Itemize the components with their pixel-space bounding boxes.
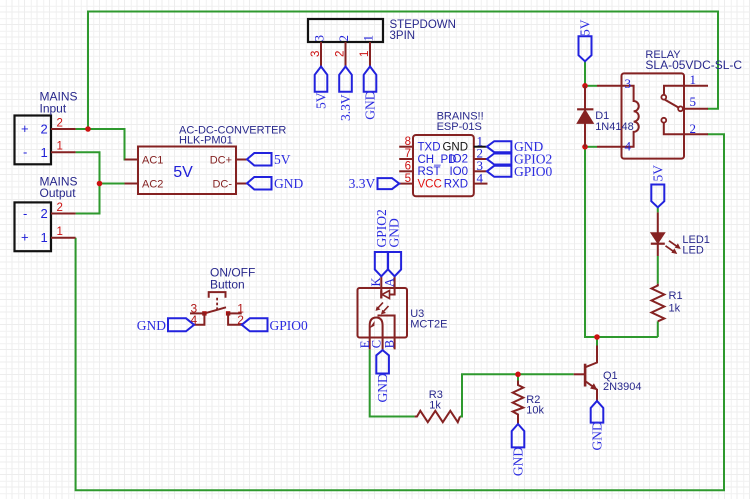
svg-text:AC2: AC2 [142,179,163,191]
svg-text:VCC: VCC [418,178,442,190]
svg-text:3PIN: 3PIN [390,30,416,42]
svg-text:2: 2 [41,122,48,137]
svg-text:2N3904: 2N3904 [603,381,642,393]
svg-text:8: 8 [405,136,411,148]
diode D1 1N4148 [577,86,634,147]
net flag GPIO2 at ESP pin2 [487,154,512,165]
svg-text:3: 3 [310,51,322,57]
net flag GND at button pin4 [168,318,194,331]
svg-text:+: + [21,121,29,136]
svg-text:MCT2E: MCT2E [410,319,447,331]
wire mains-in pin1 to AC2 [76,152,138,183]
wire mains-out pin2 to AC2 node [76,184,100,214]
svg-text:GPIO0: GPIO0 [270,318,309,333]
pin 3 button [190,312,204,314]
svg-text:C: C [369,340,383,348]
svg-text:GND: GND [274,176,303,191]
opto C pin stub [382,338,384,351]
net flag 5V above LED1 [651,185,664,208]
net flag 3.3V at ESP pin5 [378,178,400,189]
svg-text:5V: 5V [578,19,593,36]
pin 2 button [228,313,242,324]
relay contact pin 5 [678,106,683,111]
svg-text:4: 4 [477,170,484,185]
net flag GND at DC- [247,177,272,190]
junction node D1 top [582,83,588,89]
svg-text:5V: 5V [274,152,291,167]
net flag 5V at DC+ [247,153,272,166]
pin 1 button [228,312,242,314]
svg-text:2: 2 [57,202,63,214]
svg-text:-: - [23,206,27,221]
wire 5V flag to LED1 anode [657,207,659,212]
pin AC2 [125,183,139,185]
connector STEPDOWN 3PIN [308,19,456,42]
pin 3 STEPDOWN [320,42,322,67]
svg-text:6: 6 [405,161,411,173]
pin DC- [236,183,248,185]
pin 7 CH_PD [399,158,413,160]
svg-text:2: 2 [57,117,63,129]
module U2 ESP-01S [413,111,484,197]
pin 1 STEPDOWN [369,42,371,67]
net flag GPIO2 above opto K [375,252,388,276]
wire base net riser to Q1 base [460,374,574,416]
svg-text:IO0: IO0 [449,166,468,178]
svg-text:4: 4 [625,138,632,153]
net flag GPIO0 at ESP pin3 [487,166,512,177]
svg-text:1: 1 [41,145,48,160]
svg-text:ESP-01S: ESP-01S [437,121,482,133]
junction node dot1 mains input [85,126,91,132]
svg-text:A: A [382,278,396,287]
svg-text:2: 2 [690,121,697,136]
opto phototransistor [370,318,383,350]
svg-text:AC1: AC1 [142,155,163,167]
wire mains-out pin1 bottom loop to relay pin2 [76,134,724,490]
svg-text:1k: 1k [429,400,441,412]
resistor R1 1k [652,284,683,322]
svg-text:2: 2 [336,35,351,42]
svg-text:GND: GND [511,447,526,476]
svg-text:1: 1 [359,51,371,57]
svg-text:Input: Input [40,102,67,116]
svg-text:GND: GND [137,318,166,333]
svg-text:3.3V: 3.3V [338,94,353,121]
junction node D1 bottom [582,144,588,150]
wire node to relay pin4 [585,146,597,148]
LED LED1 [651,212,710,256]
svg-text:1: 1 [57,141,63,153]
relay contact pin 1 [664,86,708,95]
net flag GND above opto A [388,252,401,276]
svg-text:5V: 5V [314,92,329,109]
wire LED1 cathode to R1 top [657,256,659,284]
net flag GND below Q1 [591,401,604,423]
wire node to relay pin3 [585,85,597,87]
svg-text:3: 3 [311,35,326,42]
transistor Q1 2N3904 [574,346,642,401]
svg-text:1: 1 [41,230,48,245]
pin AC1 [125,159,139,161]
svg-text:DC-: DC- [212,179,232,191]
svg-text:Button: Button [210,278,245,292]
svg-text:10k: 10k [526,404,544,416]
svg-text:GND: GND [590,421,605,450]
svg-text:2: 2 [335,51,347,57]
connector MAINS Output [15,175,78,252]
svg-text:+: + [21,229,29,244]
svg-text:7: 7 [405,148,411,160]
AC-DC converter HLK-PM01 [138,124,286,194]
svg-text:GND: GND [442,141,468,153]
pin DC+ [236,159,248,161]
pin 5 VCC [399,183,413,185]
pin 2 STEPDOWN [345,42,347,67]
net flag GND below STEPDOWN pin1 [364,67,377,92]
svg-text:1: 1 [57,226,63,238]
svg-text:SLA-05VDC-SL-C: SLA-05VDC-SL-C [645,58,742,72]
svg-text:3: 3 [625,76,632,91]
opto internal LED [380,276,382,298]
svg-text:RXD: RXD [444,178,468,190]
svg-text:RST: RST [418,166,441,178]
net flag GPIO0 at button pin2 [242,318,268,331]
pin 2 MAINS Output [51,213,76,215]
svg-text:GND: GND [363,90,378,119]
relay lever [665,100,680,108]
svg-text:LED: LED [682,245,703,257]
svg-text:DC+: DC+ [210,155,232,167]
wire 5V flag to node D1 top [584,61,586,86]
junction node Q1 collector [594,334,600,340]
net flag GND below opto C [376,350,389,373]
svg-text:IO2: IO2 [449,153,468,165]
net flag 5V above D1 [579,36,592,61]
pin 6 RST [399,170,413,172]
wire R2 top [517,374,519,380]
pin 2 MAINS Input [51,128,76,130]
svg-text:5V: 5V [650,165,665,182]
connector MAINS Input [15,90,78,165]
pin 3 IO0 [474,170,487,172]
svg-text:1k: 1k [669,302,681,314]
relay contact pin 2 [661,118,666,123]
pin 2 IO2 [474,158,487,160]
svg-text:GND: GND [375,373,390,402]
pin 4 button [194,313,204,324]
svg-text:5: 5 [690,94,697,109]
svg-text:1: 1 [690,72,697,87]
relay K1 SLA-05VDC-SL-C [622,49,743,159]
resistor R3 1k [415,389,460,422]
relay coil [597,86,639,147]
svg-text:-: - [23,145,27,160]
svg-text:HLK-PM01: HLK-PM01 [179,135,233,147]
junction node dot2 AC2 [97,181,103,187]
svg-text:1: 1 [360,35,375,42]
wire dot1 to AC1 [76,129,138,160]
svg-text:GND: GND [387,218,402,247]
svg-text:B: B [383,340,397,348]
net flag GND below R2 [512,424,525,447]
svg-text:TXD: TXD [418,141,441,153]
svg-text:1N4148: 1N4148 [595,121,634,133]
wire R1 bottom [657,321,659,337]
wire D1 bottom to collector node to R1 [585,147,658,337]
net flag 5V below STEPDOWN pin3 [315,67,328,92]
svg-text:5: 5 [405,173,411,185]
net flag 3.3V below STEPDOWN pin2 [339,67,352,92]
svg-text:3.3V: 3.3V [349,176,376,191]
optocoupler U3 MCT2E [358,276,448,350]
wire collector node to Q1 [596,337,598,346]
svg-text:K: K [369,277,383,286]
opto base pin path [378,316,395,350]
wire opto emitter to R3 [370,349,415,416]
pushbutton ON/OFF [190,266,255,328]
pin 4 RXD [474,183,488,185]
resistor R2 10k [513,381,545,425]
pin 1 GND black [474,146,487,148]
svg-text:GPIO0: GPIO0 [514,164,553,179]
svg-text:R1: R1 [669,290,683,302]
junction node Q1 base [515,372,521,378]
pin 1 MAINS Output [51,237,76,239]
net flag GND at ESP pin1 [487,141,512,152]
svg-text:2: 2 [41,206,48,221]
wire mains-live top loop [88,12,718,129]
svg-text:Output: Output [40,186,77,200]
pin 1 MAINS Input [51,151,76,153]
svg-text:5V: 5V [173,164,193,181]
pin 8 TXD [399,146,413,148]
